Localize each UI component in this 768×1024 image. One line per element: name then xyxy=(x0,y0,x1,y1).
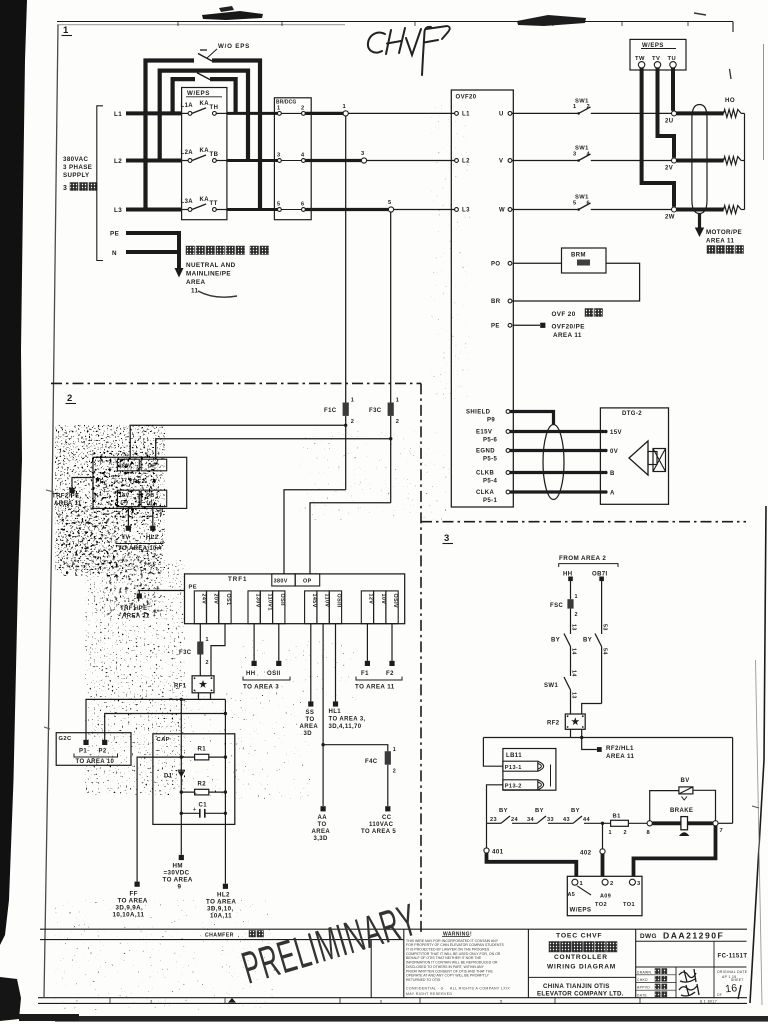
svg-text:54: 54 xyxy=(602,648,608,655)
svg-text:3D,4,11,70: 3D,4,11,70 xyxy=(329,724,362,730)
wire 145V to SS xyxy=(310,624,312,702)
node 3 xyxy=(361,158,366,163)
terminal FF xyxy=(135,882,140,887)
resistor R2 xyxy=(181,791,225,793)
terminal AA xyxy=(321,806,326,811)
svg-text:A09: A09 xyxy=(600,894,611,900)
page edge line right xyxy=(763,44,765,160)
OVF20 pin W xyxy=(508,208,512,212)
svg-text:RETURNED TO OTIS: RETURNED TO OTIS xyxy=(406,978,441,982)
CAP left rail xyxy=(180,699,182,854)
W/EPS pin 1 xyxy=(572,879,578,885)
wire BRM to BR xyxy=(512,263,640,301)
wire F1C to TRF1 380V xyxy=(284,490,346,574)
svg-text:5: 5 xyxy=(388,200,392,206)
wire OB- to HL2 xyxy=(152,507,154,526)
svg-text:CHKD: CHKD xyxy=(637,978,648,982)
svg-text:+: + xyxy=(193,807,196,813)
node 8 xyxy=(647,821,652,826)
svg-text:SHIELD: SHIELD xyxy=(466,410,491,416)
svg-text:7: 7 xyxy=(720,828,724,834)
svg-text:AA: AA xyxy=(318,815,328,821)
terminal SS xyxy=(308,701,313,706)
svg-text:BR: BR xyxy=(491,299,501,305)
bypass loop inner (phase L1) xyxy=(173,79,195,113)
svg-text:2U: 2U xyxy=(665,118,673,124)
wire bus B (to G2C P2) xyxy=(105,714,226,741)
svg-text:401: 401 xyxy=(492,849,504,856)
node 401 xyxy=(486,823,488,848)
TRF1 terminal OSII xyxy=(273,591,285,624)
svg-text:CLKA: CLKA xyxy=(476,490,495,496)
TRF2 output OB(-) xyxy=(141,490,167,506)
TRF2 PE terminal xyxy=(72,478,95,489)
svg-text:BY: BY xyxy=(551,638,560,644)
motor star point wire xyxy=(741,112,744,114)
svg-text:145V: 145V xyxy=(311,594,317,608)
svg-text:110V1: 110V1 xyxy=(267,594,273,611)
svg-text:WIRING DIAGRAM: WIRING DIAGRAM xyxy=(547,964,616,971)
svg-text:OVF20: OVF20 xyxy=(456,95,477,101)
wire PE xyxy=(126,231,181,235)
approval table xyxy=(675,967,677,998)
svg-text:FROM AREA 2: FROM AREA 2 xyxy=(559,555,606,562)
svg-text:13: 13 xyxy=(571,692,577,699)
fuse F4C xyxy=(385,751,391,765)
svg-text:OS1: OS1 xyxy=(225,594,231,606)
transformer TRF1 box xyxy=(185,574,405,624)
svg-text:C1: C1 xyxy=(199,803,208,809)
svg-text:CLKB: CLKB xyxy=(476,471,495,477)
wire 24V to fuse F3C(2) xyxy=(199,624,201,642)
svg-text:380VAC: 380VAC xyxy=(63,156,88,163)
svg-text:5: 5 xyxy=(277,202,281,208)
wire SHIELD to shield oval (thick) xyxy=(510,412,554,425)
svg-text:DATE: DATE xyxy=(637,993,648,997)
svg-text:3: 3 xyxy=(361,151,365,157)
svg-text:DRAWN: DRAWN xyxy=(637,970,652,974)
svg-text:4: 4 xyxy=(587,151,591,157)
svg-text:P5-6: P5-6 xyxy=(483,438,498,444)
svg-text:1: 1 xyxy=(396,398,400,404)
wire to FF terminal xyxy=(137,757,181,882)
svg-text:P5-5: P5-5 xyxy=(483,457,498,463)
BR/DCG pins 3/4 xyxy=(278,159,282,163)
svg-text:TO2: TO2 xyxy=(595,902,607,908)
terminal HL1 xyxy=(333,701,338,706)
svg-text:11: 11 xyxy=(191,288,199,295)
TRF1 terminal 10V xyxy=(374,591,386,624)
svg-text:2: 2 xyxy=(610,881,614,887)
svg-text:FC-1151T: FC-1151T xyxy=(718,954,748,960)
svg-text:OSIII: OSIII xyxy=(336,594,342,608)
G2C terminal P2 xyxy=(102,740,107,745)
RF1 output wires xyxy=(198,693,200,700)
motor winding phase W xyxy=(724,206,742,214)
wire F3C to TRF2 OP xyxy=(156,439,391,460)
svg-text:1: 1 xyxy=(575,594,578,600)
svg-text:TRF1: TRF1 xyxy=(228,576,247,583)
svg-text:1: 1 xyxy=(573,104,577,110)
svg-text:FSC: FSC xyxy=(550,603,563,609)
svg-text:L1A: L1A xyxy=(181,103,194,109)
svg-text:EGND: EGND xyxy=(476,449,495,455)
transformer TRF2 box xyxy=(93,457,187,508)
svg-text:TB: TB xyxy=(210,152,219,158)
svg-text:9: 9 xyxy=(178,884,182,891)
contact BY 23-24 xyxy=(501,816,510,823)
DTG-2 pin 15V xyxy=(604,430,608,434)
capacitor C1 xyxy=(181,812,200,814)
contactor KA pole L3A-TT xyxy=(182,209,188,211)
svg-text:24: 24 xyxy=(511,817,519,823)
svg-text:DWG: DWG xyxy=(640,933,657,940)
svg-text:L2: L2 xyxy=(114,158,122,165)
svg-text:N: N xyxy=(112,250,117,257)
TRF2 input OP xyxy=(141,459,167,471)
connector box LB11 xyxy=(503,749,556,791)
wire TV to 2V (thick) xyxy=(658,68,675,158)
wire L1 to BR/DCG xyxy=(227,112,278,115)
svg-text:TO AREA 3,: TO AREA 3, xyxy=(329,717,366,723)
label motor ground (CJK) xyxy=(707,246,715,254)
wire CLKB to DTG-2 B (thick) xyxy=(510,471,605,474)
encoder cable shield oval xyxy=(543,425,564,500)
svg-text:2: 2 xyxy=(301,105,305,111)
area boundary dash-dot vertical (area2/area3) xyxy=(420,383,422,933)
scanner black patch bottom left xyxy=(0,977,21,1021)
stray pen tick near motor xyxy=(730,69,732,79)
svg-text:KA: KA xyxy=(200,197,210,203)
braking resistor BRM xyxy=(562,248,607,273)
TRF2 input 380V xyxy=(117,459,139,471)
terminal OSII xyxy=(276,661,281,666)
connector P13-2 xyxy=(503,780,538,790)
svg-text:TW: TW xyxy=(635,56,645,62)
svg-text:BY: BY xyxy=(571,808,580,814)
svg-text:APPVD: APPVD xyxy=(637,986,650,990)
contact BY 34-33 xyxy=(537,816,546,823)
svg-text:CC: CC xyxy=(382,815,392,821)
svg-text:=30VDC: =30VDC xyxy=(164,870,190,877)
svg-text:33: 33 xyxy=(547,817,554,823)
terminal box BR/DCG xyxy=(274,98,311,220)
wire L2 to BR/DCG xyxy=(227,159,278,162)
terminal HM 30VDC xyxy=(179,855,184,860)
brake coil BRAKE xyxy=(681,817,688,830)
node 2V xyxy=(672,158,677,163)
svg-text:P5-4: P5-4 xyxy=(483,479,498,485)
svg-text:OSIV: OSIV xyxy=(392,594,398,608)
svg-text:15V: 15V xyxy=(610,430,622,436)
wire HH down xyxy=(570,581,572,599)
svg-text:2: 2 xyxy=(67,393,73,404)
node 7 xyxy=(713,821,718,826)
BR/DCG pins 5/6 xyxy=(278,208,282,212)
svg-text:2: 2 xyxy=(624,830,627,836)
svg-text:OSII: OSII xyxy=(279,594,285,606)
svg-text:43: 43 xyxy=(563,817,570,823)
svg-text:AREA: AREA xyxy=(312,829,331,835)
W/EPS pin 2 xyxy=(602,879,608,885)
TRF1 terminal 110V xyxy=(317,591,329,624)
ink smear top 1 xyxy=(202,11,263,20)
svg-text:3 PHASE: 3 PHASE xyxy=(63,164,92,171)
svg-text:ORIGINAL DATE: ORIGINAL DATE xyxy=(717,970,748,974)
motor cable shield xyxy=(692,105,707,214)
svg-text:B1: B1 xyxy=(613,814,622,820)
node 5 xyxy=(388,207,393,212)
BR/DCG pins 1/2 xyxy=(278,112,282,116)
svg-text:2: 2 xyxy=(206,660,209,666)
title Chinese characters xyxy=(549,942,560,953)
wire TU to 2U (thick) xyxy=(671,68,675,111)
wire pin4 to node 3 xyxy=(305,159,361,162)
svg-text:6: 6 xyxy=(301,202,305,208)
wire 2U to motor (thick) xyxy=(677,111,724,115)
capacitor unit box CAP xyxy=(153,734,235,825)
frame tick marks bottom strip xyxy=(38,997,747,999)
CAP right rail to HL2 xyxy=(224,699,226,883)
svg-text:BY: BY xyxy=(499,808,508,814)
svg-text:L3A: L3A xyxy=(181,199,194,205)
border triangle mark xyxy=(228,998,236,1003)
svg-text:3: 3 xyxy=(277,153,281,159)
svg-text:OVF20/PE: OVF20/PE xyxy=(552,324,585,331)
thick wire 402 to W/EPS pin2 xyxy=(601,854,605,876)
wire bus A (RF1 to G2C P1 / CAP) xyxy=(86,699,225,740)
fuse BV xyxy=(679,787,693,794)
OVF20 pin L3 xyxy=(455,208,459,212)
svg-text:U: U xyxy=(499,112,504,118)
drawing frame right border xyxy=(750,506,766,1003)
node 1 xyxy=(343,111,348,116)
svg-text:14: 14 xyxy=(571,648,577,655)
svg-text:3: 3 xyxy=(444,533,450,544)
svg-text:MOTOR/PE: MOTOR/PE xyxy=(706,229,742,236)
svg-text:TO AREA: TO AREA xyxy=(163,877,193,884)
title block chamfer strip xyxy=(40,928,747,930)
wire pin6 to node 5 xyxy=(305,208,388,211)
svg-text:TT: TT xyxy=(210,201,218,207)
wire OB7I down xyxy=(601,581,603,634)
switch SW1 3-4 xyxy=(512,160,579,162)
FC-1151T box xyxy=(713,941,715,998)
resistor B1 xyxy=(611,820,629,826)
svg-text:6: 6 xyxy=(380,998,383,1003)
wire L1 supply xyxy=(126,111,182,115)
terminal F1 xyxy=(365,661,370,666)
svg-text:KA: KA xyxy=(200,101,210,107)
OVF20 pin L1 xyxy=(455,112,459,116)
handwritten PRELIMINARY xyxy=(236,894,423,994)
svg-text:P5-1: P5-1 xyxy=(483,498,498,504)
svg-text:OVF 20: OVF 20 xyxy=(552,311,576,318)
area boundary dash-dot horizontal (area1/area3) xyxy=(421,521,746,523)
switch W/O EPS inner blade xyxy=(197,73,210,80)
wire 110V down xyxy=(322,624,324,806)
svg-text:TO1: TO1 xyxy=(623,902,635,908)
fuse F3C (transformer secondary) xyxy=(197,642,203,655)
svg-text:PE: PE xyxy=(110,231,119,238)
brake coil wire (thick) xyxy=(652,821,713,825)
ink smear top 2 xyxy=(517,15,586,26)
svg-text:W: W xyxy=(499,208,505,214)
wire node1 to OVF20 L1 xyxy=(348,112,454,114)
svg-text:W/EPS: W/EPS xyxy=(570,907,592,914)
wire F1C to TRF2 380V xyxy=(130,425,346,459)
TRF1 terminal OS1 xyxy=(219,591,231,624)
motor winding MO phase U xyxy=(724,109,742,117)
svg-text:SUPPLY: SUPPLY xyxy=(63,172,90,179)
svg-text:5: 5 xyxy=(573,200,577,206)
svg-text:2: 2 xyxy=(351,419,355,425)
svg-text:AREA 11: AREA 11 xyxy=(706,238,735,245)
svg-text:A: A xyxy=(610,491,615,497)
contactor box W/EPS (area1) xyxy=(182,88,227,220)
handwritten signatures xyxy=(679,969,696,982)
svg-text:V: V xyxy=(499,159,503,165)
terminal CC 110VAC xyxy=(385,806,390,811)
TRF1 input OP xyxy=(295,574,320,586)
encoder box DTG-2 xyxy=(600,408,668,504)
svg-text:23: 23 xyxy=(490,817,497,823)
terminal RF2/HL1 AREA 11 xyxy=(582,738,597,750)
right border tick xyxy=(752,806,759,808)
svg-text:1: 1 xyxy=(351,398,355,404)
bypass loop middle (phase L2) xyxy=(160,71,248,161)
svg-text:TO AREA 5: TO AREA 5 xyxy=(361,829,396,835)
wire node1 down to F1C xyxy=(345,116,347,403)
wires 130V/OSII to HH OSII xyxy=(253,624,255,661)
TRF1 terminal 145V xyxy=(305,591,317,624)
svg-text:PE: PE xyxy=(189,585,198,591)
svg-text:P13-1: P13-1 xyxy=(505,765,522,771)
wire P13-2 to contact row xyxy=(487,785,503,824)
svg-text:BRAKE: BRAKE xyxy=(670,808,693,814)
svg-text:DTG-2: DTG-2 xyxy=(622,411,642,417)
svg-text:12V: 12V xyxy=(368,594,374,605)
svg-text:L2A: L2A xyxy=(181,150,194,156)
scan noise speckle regions xyxy=(55,425,165,570)
switch SW1 1-2 xyxy=(512,112,579,114)
wire node5 to OVF20 L3 xyxy=(394,209,455,211)
svg-text:F1: F1 xyxy=(361,671,369,677)
svg-text:MAY RIGHT RESERVED: MAY RIGHT RESERVED xyxy=(406,992,452,996)
svg-text:3,3D: 3,3D xyxy=(314,836,329,842)
wire E15V to DTG-2 15V (thick) xyxy=(510,430,605,433)
area boundary dash-dot horizontal (area1/area2) xyxy=(51,382,421,384)
TRF1 terminal 130V xyxy=(248,591,260,624)
svg-text:ALL RIGHTS A COMPANY LXIX: ALL RIGHTS A COMPANY LXIX xyxy=(450,987,510,991)
svg-text:CONTROLLER: CONTROLLER xyxy=(554,954,608,961)
svg-text:1: 1 xyxy=(609,830,612,836)
OVF20 pin SHIELD P9 xyxy=(506,410,510,414)
bypass loop outer (W/O EPS, phase L3) xyxy=(146,61,195,210)
label neutral mainline PE (CJK) xyxy=(186,246,195,255)
svg-text:5: 5 xyxy=(500,998,503,1003)
switch W/O EPS outer blade xyxy=(198,54,212,62)
svg-text:TO AREA 11: TO AREA 11 xyxy=(355,684,395,691)
OVF20 pin BR xyxy=(508,299,512,303)
scanner black bar left edge xyxy=(0,0,27,945)
contact row wire xyxy=(487,822,502,824)
TRF2 output 15V(+) xyxy=(117,490,139,506)
svg-text:P13-2: P13-2 xyxy=(505,784,522,790)
wires 12V/OSIV to F1 F2 xyxy=(366,624,368,661)
OVF20 pin U xyxy=(508,112,512,116)
contact BY 43-44 xyxy=(573,816,582,823)
OVF20 pin CLKB P5-4 xyxy=(506,471,510,475)
wire EGND to DTG-2 0V (thick) xyxy=(510,449,605,452)
svg-text:16: 16 xyxy=(724,982,738,995)
svg-text:OP: OP xyxy=(303,579,312,585)
svg-text:53: 53 xyxy=(602,624,608,631)
svg-text:BRM: BRM xyxy=(571,253,586,259)
svg-text:2: 2 xyxy=(587,104,591,110)
wire OS1 to RF1 xyxy=(211,624,225,676)
svg-text:BY: BY xyxy=(535,808,544,814)
svg-text:2W: 2W xyxy=(665,215,675,221)
svg-text:F2: F2 xyxy=(386,671,394,677)
W/EPS pin 3 xyxy=(629,879,635,885)
svg-text:10V: 10V xyxy=(380,594,386,605)
G2C terminal P1 xyxy=(83,740,88,745)
svg-text:1: 1 xyxy=(206,637,209,643)
scanner dark band bottom xyxy=(55,1016,768,1022)
OVF20 pin EGND P5-5 xyxy=(506,449,510,453)
svg-text:F4C: F4C xyxy=(365,759,378,765)
svg-text:4: 4 xyxy=(301,153,305,159)
svg-text:0V: 0V xyxy=(610,449,618,455)
svg-text:402: 402 xyxy=(580,850,592,857)
svg-text:MAINLINE/PE: MAINLINE/PE xyxy=(186,271,231,278)
TRF1 terminal OSIII xyxy=(329,591,341,624)
svg-text:TOEC CHVF: TOEC CHVF xyxy=(556,933,602,940)
TRF1 PE terminal xyxy=(139,591,184,594)
svg-text:L3: L3 xyxy=(114,207,122,214)
thick wire 401 to W/EPS pin1 xyxy=(487,853,577,876)
svg-text:AREA: AREA xyxy=(186,279,205,286)
relay RF2 xyxy=(565,714,585,729)
svg-text:BY: BY xyxy=(583,638,592,644)
svg-text:3: 3 xyxy=(573,151,577,157)
wire 2V to motor (thick) xyxy=(677,159,724,163)
svg-text:SHEET: SHEET xyxy=(731,978,744,982)
svg-text:2: 2 xyxy=(393,769,396,775)
TRF1 terminal 12V xyxy=(361,591,373,624)
svg-text:NUETRAL AND: NUETRAL AND xyxy=(186,262,236,269)
svg-text:A5: A5 xyxy=(568,892,576,898)
thick wire node7 to W/EPS pin3 xyxy=(634,826,716,876)
svg-text:8 1 8017: 8 1 8017 xyxy=(700,999,717,1003)
svg-text:FF: FF xyxy=(130,891,138,898)
wire CLKA to DTG-2 A (thick) xyxy=(510,490,605,493)
svg-text:P9: P9 xyxy=(487,418,495,424)
connector P13-1 xyxy=(503,761,538,771)
OVF20 PE terminal square xyxy=(513,324,540,326)
svg-text:34: 34 xyxy=(527,817,535,823)
svg-text:CHINA TIANJIN OTIS: CHINA TIANJIN OTIS xyxy=(543,983,610,990)
svg-text:HL2: HL2 xyxy=(217,892,230,899)
terminal HL2 (CAP) xyxy=(223,884,228,889)
resistor R1 xyxy=(181,756,225,758)
svg-text:3: 3 xyxy=(63,185,67,192)
terminal box W/EPS (area3) xyxy=(567,876,642,915)
svg-text:1: 1 xyxy=(277,105,281,111)
fuse F3C xyxy=(388,403,394,416)
handwritten stroke under area11 xyxy=(198,291,237,297)
